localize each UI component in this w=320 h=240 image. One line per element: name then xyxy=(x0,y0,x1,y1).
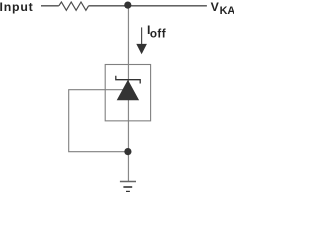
svg-text:off: off xyxy=(150,28,166,41)
svg-text:Input: Input xyxy=(0,0,34,14)
svg-text:KA: KA xyxy=(220,5,234,17)
svg-text:V: V xyxy=(211,0,220,14)
